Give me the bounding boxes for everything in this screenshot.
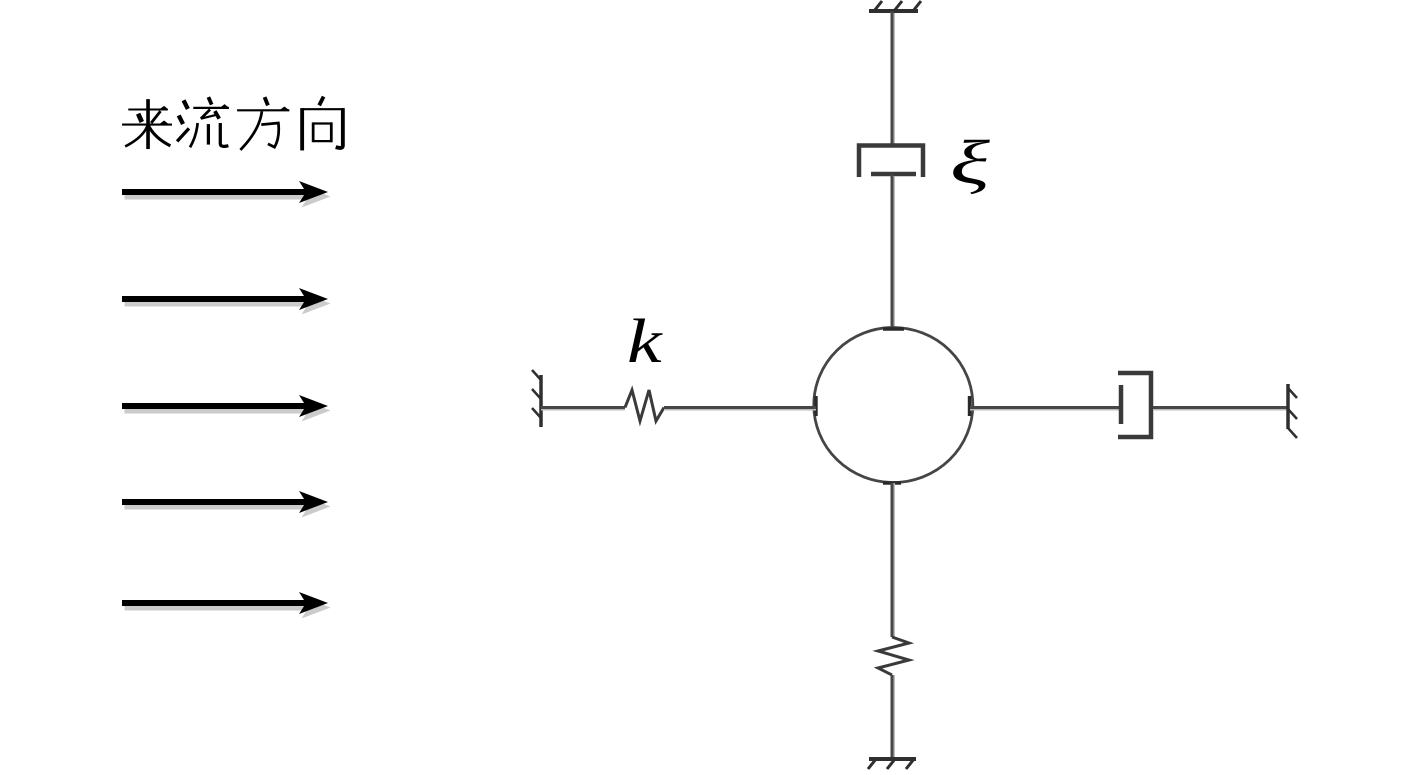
bottom wall anchor (hatched support) [868,759,916,769]
left wall anchor (hatched) [532,370,541,427]
wire: right damper to right wall [1153,408,1288,410]
damper U2 right (dashpot cylinder, opens leftward) [1118,373,1151,437]
damper U1 top (dashpot cylinder, opens downward) [859,146,923,178]
right wall anchor (hatched) [1288,384,1297,438]
junction stub: left of circle [814,396,817,416]
flow arrow 4 [122,491,331,518]
flow direction label 来流方向 (drawn strokes) [122,97,344,151]
spring bottom (vertical zigzag) [878,637,909,675]
char 方 [237,97,289,150]
flow arrow 2 [122,288,331,315]
flow arrow 3 [122,395,331,422]
wire: left wall to spring k [541,408,625,410]
wire: spring k to mass [664,408,816,410]
wire: mass to right damper piston [970,408,1122,410]
svg-text:k: k [627,307,663,376]
junction stub: top of circle [883,327,904,330]
flow arrow 1 [122,181,331,208]
mass: cylinder cross-section (circle) [814,328,973,483]
spring k (horizontal zigzag) [625,390,664,421]
wire: rod from damper piston to mass [892,174,894,330]
svg-text:ξ: ξ [950,128,990,197]
top wall anchor (hatched support) [869,1,921,11]
char 向 [302,97,344,151]
label ξ (damping ratio) [950,128,990,197]
junction stub: right of circle [968,396,971,416]
wire: top rod from anchor to damper [892,11,894,145]
char 来 [122,99,172,149]
junction stub: bottom of circle [883,481,901,484]
wire: mass bottom to spring [892,483,894,637]
wire: spring to bottom anchor [892,675,894,759]
char 流 [177,97,229,147]
label k (stiffness) [627,307,663,376]
flow arrow 5 [122,592,331,619]
